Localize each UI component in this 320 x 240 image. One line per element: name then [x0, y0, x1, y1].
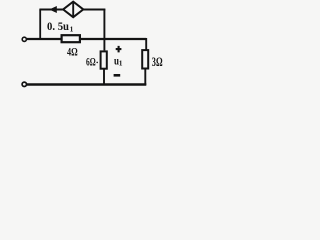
controlled source: diamond body — [63, 2, 83, 18]
svg-text:4Ω: 4Ω — [67, 45, 78, 59]
label: plus sign of u1 — [116, 46, 122, 53]
label: dot after 6 ohm — [96, 62, 98, 64]
controlled source: internal bar — [72, 2, 74, 16]
wire: right loop vertical down to 6-ohm top — [103, 9, 105, 51]
svg-text:6Ω: 6Ω — [86, 57, 96, 69]
wire: 3-ohm top lead with corner — [145, 38, 147, 50]
label: minus sign of u1 — [114, 74, 121, 77]
resistor 6-ohm (vertical box) — [101, 51, 107, 68]
current direction arrow (points left) — [49, 6, 57, 13]
wire: top loop horizontal segments — [39, 9, 105, 11]
resistor 4-ohm (horizontal box) — [62, 35, 80, 42]
node: left bottom terminal — [22, 82, 26, 86]
wire: 6-ohm bottom lead — [103, 69, 105, 85]
svg-text:1: 1 — [119, 59, 123, 68]
svg-text:0. 5u: 0. 5u — [47, 21, 70, 33]
node: left top terminal — [22, 37, 26, 41]
wire: bottom horizontal rail — [27, 83, 147, 85]
wire: top loop left vertical — [39, 10, 41, 41]
svg-text:3Ω: 3Ω — [152, 55, 163, 69]
svg-text:1: 1 — [70, 24, 74, 33]
wire: 3-ohm bottom lead — [144, 69, 146, 86]
wire: middle horizontal rail — [27, 38, 146, 40]
resistor 3-ohm (vertical box) — [142, 50, 148, 68]
